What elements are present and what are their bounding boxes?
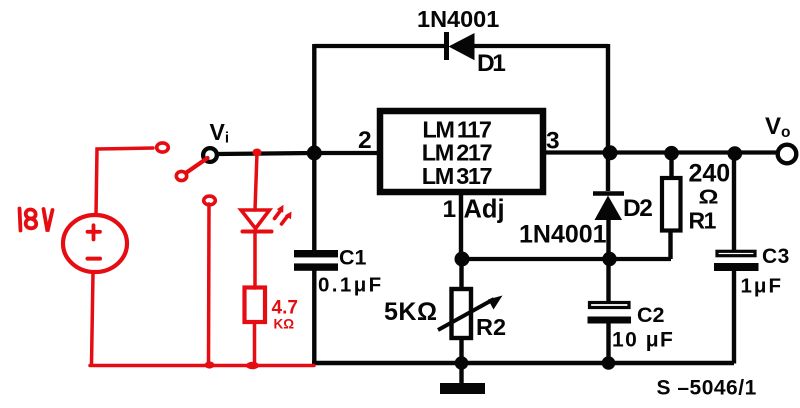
regulator U1 LM117/LM217/LM317 [380, 111, 543, 192]
capacitor C2 [588, 259, 632, 364]
svg-text:S –5046/1: S –5046/1 [657, 377, 757, 400]
svg-text:C1: C1 [339, 246, 367, 270]
label 18V [20, 209, 53, 232]
wire left input rail vertical [312, 44, 316, 251]
battery plus sign [88, 225, 101, 239]
svg-text:10 μF: 10 μF [612, 329, 674, 352]
diode D2 [593, 194, 624, 221]
capacitor C1 [294, 250, 338, 364]
resistor R2 potentiometer [438, 259, 503, 364]
switch input terminal loop [157, 143, 169, 152]
svg-text:R2: R2 [476, 314, 506, 340]
svg-text:Adj: Adj [464, 196, 505, 224]
wire adj rail [461, 257, 671, 261]
svg-text:D1: D1 [477, 50, 505, 77]
junction output-R1 node [664, 146, 679, 161]
svg-text:2: 2 [358, 127, 372, 154]
diode D1 [447, 32, 475, 60]
battery top lead wire [96, 148, 153, 215]
wire output rail [544, 150, 779, 154]
junction C2-ground node [602, 356, 616, 370]
svg-text:1N4001: 1N4001 [417, 6, 499, 32]
wire top rail right segment [474, 44, 608, 48]
svg-text:LM 317: LM 317 [422, 163, 493, 189]
battery minus sign [88, 257, 101, 261]
LED to resistor wire [253, 233, 257, 288]
red branch wire down [207, 204, 211, 365]
svg-text:5KΩ: 5KΩ [384, 298, 438, 326]
wire adj pin [459, 192, 463, 259]
svg-text:0.1μF: 0.1μF [318, 274, 384, 297]
wire ground rail bottom [312, 361, 734, 365]
svg-text:Vi: Vi [210, 119, 230, 147]
svg-text:1N4001: 1N4001 [519, 221, 607, 249]
svg-text:KΩ: KΩ [274, 317, 295, 332]
junction R2-ground node [455, 356, 469, 370]
lower branch terminal loop [204, 196, 216, 205]
svg-text:4.7: 4.7 [272, 298, 298, 319]
svg-text:1μF: 1μF [741, 275, 783, 298]
junction input node [307, 146, 322, 161]
LED tap blob on input wire [253, 149, 262, 157]
junction output-C3 node [728, 146, 743, 161]
battery bottom lead wire [92, 273, 94, 364]
LED branch upper wire [255, 153, 257, 210]
capacitor C3 [714, 154, 759, 364]
svg-text:D2: D2 [623, 195, 652, 222]
junction D2-C2 node [602, 252, 616, 266]
svg-text:R1: R1 [689, 208, 717, 234]
input terminal Vi [203, 148, 217, 162]
junction output-D2 node [603, 145, 618, 160]
switch lever [187, 158, 208, 173]
wire right rail D1 down [606, 44, 610, 191]
svg-text:C3: C3 [762, 245, 790, 268]
red ground return wire [90, 364, 314, 368]
junction adj node [455, 252, 470, 267]
svg-text:C2: C2 [637, 303, 665, 327]
ground [440, 363, 485, 394]
svg-text:Vo: Vo [765, 113, 790, 141]
svg-text:240: 240 [689, 160, 731, 188]
resistor lower lead wire [253, 322, 257, 365]
output terminal Vo [778, 145, 797, 164]
red junction blob LED branch [246, 362, 259, 370]
switch lever terminal loop [176, 171, 186, 180]
svg-text:1: 1 [443, 196, 457, 223]
resistor R1 [662, 154, 681, 259]
wire Vi to pin 2 [217, 153, 380, 154]
LED light arrows [275, 205, 292, 224]
battery 18V source [63, 215, 127, 272]
wire top rail left segment [314, 44, 444, 48]
wire D2 to adj rail [606, 218, 610, 259]
svg-text:LM 217: LM 217 [422, 140, 493, 166]
resistor 4.7k [245, 288, 266, 323]
svg-text:Ω: Ω [699, 186, 719, 209]
LED D3 [241, 210, 272, 232]
red junction blob branch [205, 361, 215, 368]
